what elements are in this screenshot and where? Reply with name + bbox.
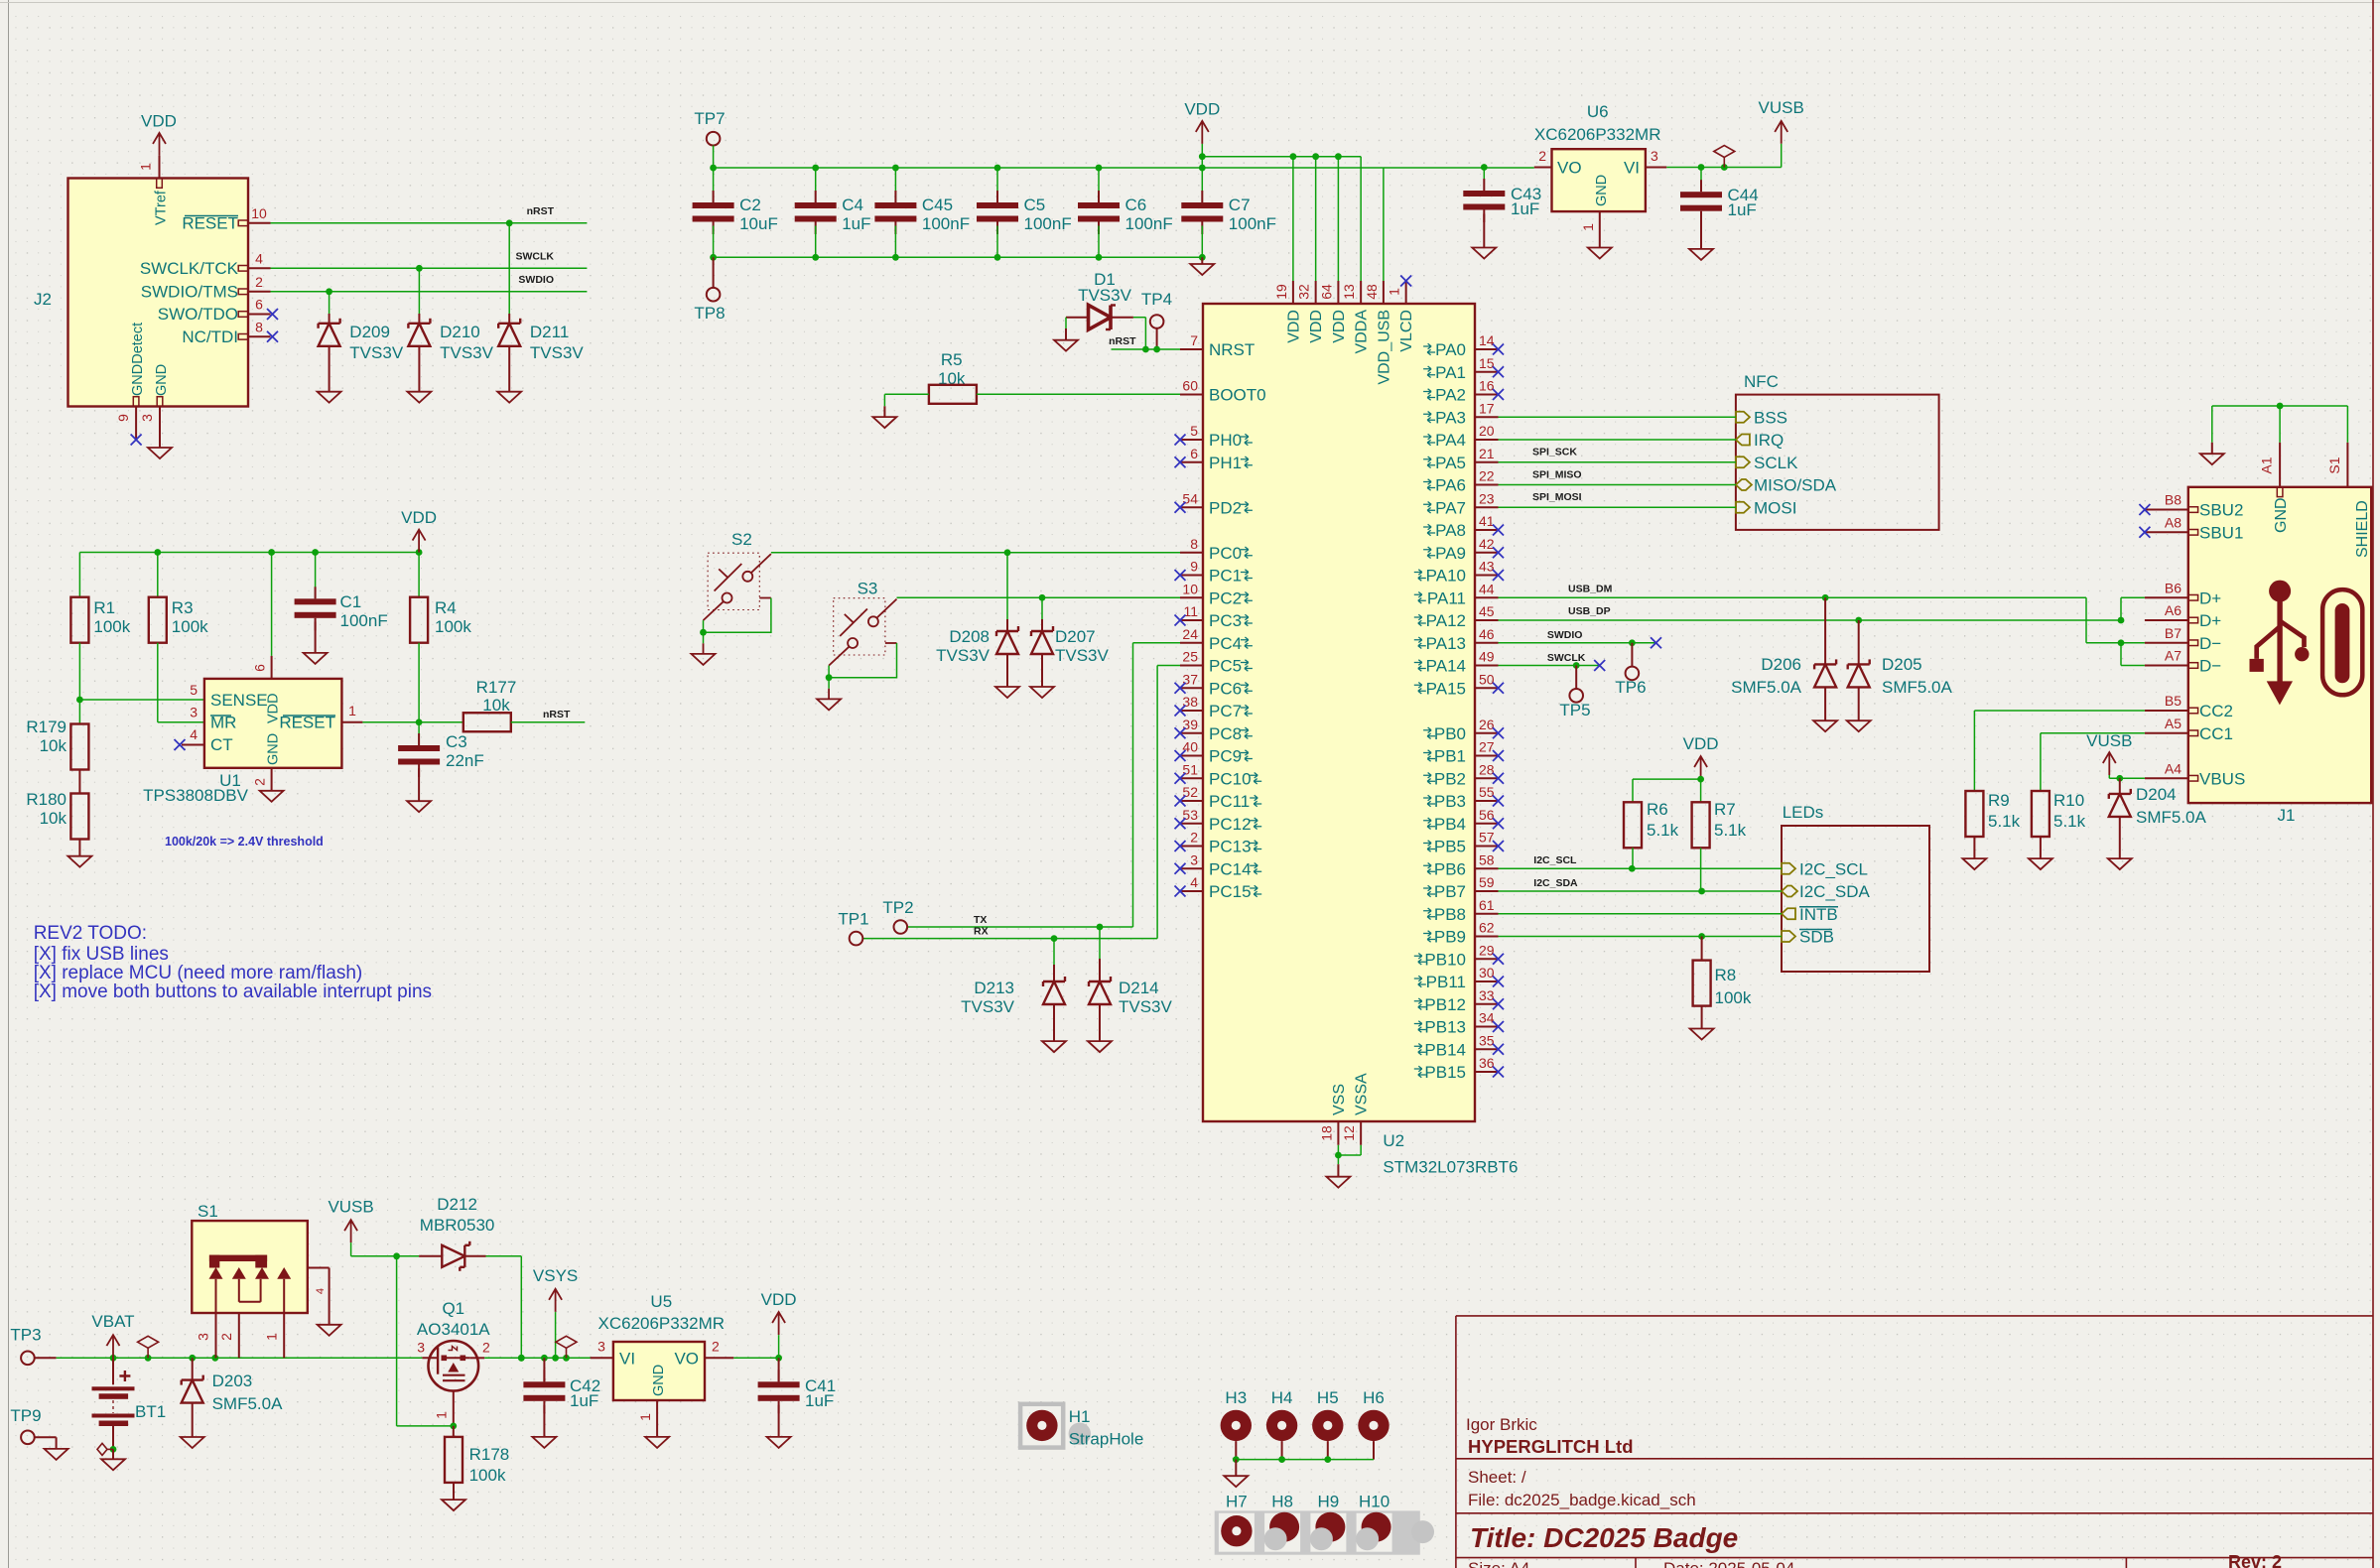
svg-text:D211: D211 bbox=[530, 323, 569, 341]
svg-text:21: 21 bbox=[1479, 446, 1495, 461]
svg-text:SPI_MOSI: SPI_MOSI bbox=[1532, 491, 1582, 503]
svg-text:PC13: PC13 bbox=[1209, 838, 1252, 856]
svg-text:R9: R9 bbox=[1988, 791, 2010, 810]
svg-text:CT: CT bbox=[210, 735, 233, 754]
svg-text:2: 2 bbox=[252, 778, 268, 786]
svg-text:PB5: PB5 bbox=[1434, 838, 1466, 856]
svg-text:25: 25 bbox=[1182, 649, 1198, 665]
svg-text:49: 49 bbox=[1479, 649, 1495, 665]
svg-text:14: 14 bbox=[1479, 332, 1495, 348]
svg-text:A6: A6 bbox=[2165, 602, 2182, 618]
svg-text:PA12: PA12 bbox=[1426, 611, 1466, 630]
svg-text:I2C_SCL: I2C_SCL bbox=[1799, 859, 1868, 878]
svg-text:R7: R7 bbox=[1714, 800, 1736, 819]
svg-text:GND: GND bbox=[154, 364, 170, 396]
svg-text:PB1: PB1 bbox=[1434, 747, 1466, 766]
svg-text:H9: H9 bbox=[1318, 1493, 1340, 1511]
svg-text:61: 61 bbox=[1479, 897, 1495, 913]
svg-text:RX: RX bbox=[974, 926, 989, 938]
svg-text:VI: VI bbox=[619, 1350, 635, 1369]
svg-text:10: 10 bbox=[251, 205, 267, 221]
svg-text:35: 35 bbox=[1479, 1032, 1495, 1048]
svg-text:PB13: PB13 bbox=[1424, 1018, 1466, 1037]
svg-text:15: 15 bbox=[1479, 355, 1495, 371]
svg-text:D203: D203 bbox=[212, 1372, 253, 1390]
svg-text:3: 3 bbox=[196, 1333, 211, 1341]
svg-text:SHIELD: SHIELD bbox=[2354, 500, 2371, 558]
svg-text:1: 1 bbox=[1580, 223, 1596, 231]
svg-text:PA14: PA14 bbox=[1426, 657, 1466, 676]
svg-text:SWCLK/TCK: SWCLK/TCK bbox=[140, 259, 239, 278]
svg-text:H3: H3 bbox=[1225, 1388, 1247, 1407]
svg-text:54: 54 bbox=[1182, 490, 1198, 506]
svg-text:D+: D+ bbox=[2199, 611, 2221, 630]
svg-text:C6: C6 bbox=[1125, 196, 1147, 214]
svg-text:100nF: 100nF bbox=[340, 611, 388, 630]
svg-text:H10: H10 bbox=[1359, 1493, 1389, 1511]
svg-text:C2: C2 bbox=[739, 196, 761, 214]
svg-text:PA4: PA4 bbox=[1435, 431, 1466, 450]
svg-text:VBAT: VBAT bbox=[91, 1312, 134, 1331]
svg-text:I2C_SDA: I2C_SDA bbox=[1799, 882, 1871, 901]
svg-text:PA5: PA5 bbox=[1435, 454, 1466, 472]
svg-text:GND: GND bbox=[651, 1365, 667, 1396]
svg-text:C1: C1 bbox=[340, 592, 362, 611]
svg-text:Title: DC2025 Badge: Title: DC2025 Badge bbox=[1470, 1522, 1738, 1553]
svg-text:3: 3 bbox=[597, 1339, 605, 1355]
svg-text:10k: 10k bbox=[482, 696, 510, 715]
svg-text:PH1: PH1 bbox=[1209, 454, 1242, 472]
svg-text:100nF: 100nF bbox=[1125, 214, 1173, 233]
svg-text:VDD: VDD bbox=[1331, 310, 1348, 343]
svg-text:LEDs: LEDs bbox=[1783, 803, 1824, 822]
svg-text:VDD: VDD bbox=[1683, 734, 1719, 753]
svg-text:BSS: BSS bbox=[1754, 408, 1787, 427]
svg-text:A8: A8 bbox=[2165, 514, 2182, 530]
svg-text:NC/TDI: NC/TDI bbox=[182, 327, 238, 346]
svg-text:nRST: nRST bbox=[543, 709, 571, 720]
svg-text:3: 3 bbox=[417, 1340, 425, 1356]
svg-text:VSYS: VSYS bbox=[533, 1266, 578, 1285]
svg-text:1uF: 1uF bbox=[1511, 199, 1539, 218]
svg-text:NRST: NRST bbox=[1209, 340, 1255, 359]
svg-text:REV2 TODO:: REV2 TODO: bbox=[34, 923, 147, 944]
svg-text:PC9: PC9 bbox=[1209, 747, 1242, 766]
svg-text:VDD: VDD bbox=[761, 1290, 797, 1309]
svg-text:Sheet: /: Sheet: / bbox=[1468, 1468, 1526, 1487]
svg-text:34: 34 bbox=[1479, 1010, 1495, 1026]
svg-text:7: 7 bbox=[1190, 332, 1198, 348]
svg-text:C3: C3 bbox=[446, 732, 467, 751]
svg-text:10k: 10k bbox=[40, 736, 67, 755]
svg-text:SMF5.0A: SMF5.0A bbox=[212, 1394, 284, 1413]
svg-text:18: 18 bbox=[1318, 1125, 1334, 1141]
svg-text:D205: D205 bbox=[1882, 655, 1922, 674]
svg-text:PB12: PB12 bbox=[1424, 995, 1466, 1014]
svg-text:B6: B6 bbox=[2165, 580, 2182, 595]
svg-text:4: 4 bbox=[1190, 874, 1198, 890]
svg-text:5: 5 bbox=[1190, 423, 1198, 439]
svg-text:D204: D204 bbox=[2136, 785, 2177, 804]
svg-text:SWCLK: SWCLK bbox=[1547, 652, 1586, 664]
svg-text:PA7: PA7 bbox=[1435, 498, 1466, 517]
svg-text:PA3: PA3 bbox=[1435, 408, 1466, 427]
svg-text:[X] move both buttons to avail: [X] move both buttons to available inter… bbox=[34, 981, 432, 1002]
svg-text:PH0: PH0 bbox=[1209, 431, 1242, 450]
svg-text:60: 60 bbox=[1182, 378, 1198, 394]
svg-text:[X] replace MCU (need more ram: [X] replace MCU (need more ram/flash) bbox=[34, 963, 363, 983]
svg-text:H1: H1 bbox=[1069, 1407, 1091, 1426]
svg-text:55: 55 bbox=[1479, 784, 1495, 800]
svg-text:S2: S2 bbox=[731, 530, 752, 549]
svg-text:TP4: TP4 bbox=[1141, 290, 1172, 309]
svg-text:100nF: 100nF bbox=[1229, 214, 1276, 233]
svg-text:RESET: RESET bbox=[182, 214, 238, 233]
svg-text:R1: R1 bbox=[93, 598, 115, 617]
svg-text:B5: B5 bbox=[2165, 693, 2182, 709]
svg-text:SWCLK: SWCLK bbox=[516, 251, 555, 263]
svg-text:A7: A7 bbox=[2165, 648, 2182, 664]
svg-text:9: 9 bbox=[1190, 559, 1198, 575]
svg-text:PA1: PA1 bbox=[1435, 363, 1466, 382]
svg-text:D208: D208 bbox=[949, 627, 990, 646]
svg-text:PB0: PB0 bbox=[1434, 724, 1466, 743]
svg-text:R4: R4 bbox=[435, 598, 457, 617]
svg-text:SDB: SDB bbox=[1799, 928, 1834, 947]
svg-text:S3: S3 bbox=[858, 580, 878, 598]
svg-text:1: 1 bbox=[138, 163, 154, 171]
svg-text:3: 3 bbox=[1190, 851, 1198, 867]
svg-text:4: 4 bbox=[190, 726, 198, 742]
svg-text:37: 37 bbox=[1182, 671, 1198, 687]
svg-text:VDD: VDD bbox=[401, 508, 437, 527]
svg-text:H6: H6 bbox=[1363, 1388, 1385, 1407]
svg-text:1uF: 1uF bbox=[842, 214, 870, 233]
svg-text:PB6: PB6 bbox=[1434, 859, 1466, 878]
svg-text:R5: R5 bbox=[941, 350, 963, 369]
svg-text:27: 27 bbox=[1479, 739, 1495, 755]
svg-text:1: 1 bbox=[434, 1411, 450, 1419]
svg-text:TX: TX bbox=[974, 914, 987, 926]
svg-text:D210: D210 bbox=[440, 323, 480, 341]
svg-text:57: 57 bbox=[1479, 830, 1495, 846]
svg-text:36: 36 bbox=[1479, 1055, 1495, 1071]
svg-text:4: 4 bbox=[255, 250, 263, 266]
svg-text:41: 41 bbox=[1479, 513, 1495, 529]
svg-text:PB10: PB10 bbox=[1424, 950, 1466, 969]
svg-text:1uF: 1uF bbox=[570, 1391, 598, 1410]
svg-text:PA8: PA8 bbox=[1435, 521, 1466, 540]
svg-text:C45: C45 bbox=[922, 196, 953, 214]
svg-text:10uF: 10uF bbox=[739, 214, 778, 233]
svg-text:PC1: PC1 bbox=[1209, 567, 1242, 586]
svg-text:A1: A1 bbox=[2259, 457, 2275, 473]
svg-text:XC6206P332MR: XC6206P332MR bbox=[598, 1314, 726, 1333]
svg-text:PA0: PA0 bbox=[1435, 340, 1466, 359]
svg-text:2: 2 bbox=[1538, 148, 1546, 164]
svg-text:CC1: CC1 bbox=[2199, 724, 2233, 743]
svg-text:J1: J1 bbox=[2278, 806, 2296, 825]
svg-text:22nF: 22nF bbox=[446, 751, 484, 770]
svg-text:TVS3V: TVS3V bbox=[349, 343, 404, 362]
svg-text:[X] fix USB lines: [X] fix USB lines bbox=[34, 944, 169, 965]
svg-text:SWDIO/TMS: SWDIO/TMS bbox=[141, 283, 238, 302]
svg-text:100k: 100k bbox=[93, 617, 130, 636]
svg-text:MOSI: MOSI bbox=[1754, 498, 1796, 517]
svg-text:1uF: 1uF bbox=[1728, 200, 1757, 219]
svg-text:PB8: PB8 bbox=[1434, 905, 1466, 924]
svg-text:S1: S1 bbox=[198, 1202, 218, 1221]
svg-text:PA9: PA9 bbox=[1435, 544, 1466, 563]
svg-text:TVS3V: TVS3V bbox=[961, 997, 1015, 1016]
svg-text:23: 23 bbox=[1479, 490, 1495, 506]
svg-text:TVS3V: TVS3V bbox=[530, 343, 585, 362]
svg-text:C4: C4 bbox=[842, 196, 863, 214]
svg-text:17: 17 bbox=[1479, 400, 1495, 416]
svg-text:INTB: INTB bbox=[1799, 905, 1838, 924]
svg-text:20: 20 bbox=[1479, 423, 1495, 439]
svg-text:SWDIO: SWDIO bbox=[518, 274, 554, 286]
svg-text:VTref: VTref bbox=[154, 190, 170, 225]
svg-text:VDDA: VDDA bbox=[1354, 310, 1371, 354]
svg-text:58: 58 bbox=[1479, 851, 1495, 867]
svg-text:13: 13 bbox=[1341, 284, 1357, 300]
svg-text:PB7: PB7 bbox=[1434, 882, 1466, 901]
svg-text:J2: J2 bbox=[34, 290, 52, 309]
svg-text:TVS3V: TVS3V bbox=[936, 646, 991, 665]
svg-text:PC15: PC15 bbox=[1209, 882, 1252, 901]
svg-text:TVS3V: TVS3V bbox=[1078, 286, 1132, 305]
svg-text:VI: VI bbox=[1624, 159, 1640, 178]
svg-text:SCLK: SCLK bbox=[1754, 454, 1798, 472]
svg-text:VUSB: VUSB bbox=[1759, 98, 1804, 117]
svg-text:PD2: PD2 bbox=[1209, 498, 1242, 517]
svg-text:16: 16 bbox=[1479, 378, 1495, 394]
svg-text:R179: R179 bbox=[26, 718, 66, 736]
svg-text:SWO/TDO: SWO/TDO bbox=[158, 305, 238, 324]
svg-text:PC10: PC10 bbox=[1209, 769, 1252, 788]
svg-text:nRST: nRST bbox=[1109, 335, 1136, 347]
svg-text:100k: 100k bbox=[435, 617, 471, 636]
svg-text:1uF: 1uF bbox=[805, 1391, 834, 1410]
svg-text:PC8: PC8 bbox=[1209, 724, 1242, 743]
svg-text:D213: D213 bbox=[974, 979, 1014, 997]
svg-text:CC2: CC2 bbox=[2199, 702, 2233, 720]
svg-text:8: 8 bbox=[1190, 536, 1198, 552]
svg-text:6: 6 bbox=[255, 297, 263, 313]
svg-text:50: 50 bbox=[1479, 671, 1495, 687]
svg-text:1: 1 bbox=[348, 703, 356, 719]
svg-text:PA2: PA2 bbox=[1435, 386, 1466, 405]
svg-text:56: 56 bbox=[1479, 807, 1495, 823]
svg-text:PC14: PC14 bbox=[1209, 859, 1252, 878]
svg-text:VDD: VDD bbox=[141, 112, 177, 131]
svg-text:28: 28 bbox=[1479, 761, 1495, 777]
svg-text:2: 2 bbox=[255, 274, 263, 290]
svg-text:H7: H7 bbox=[1226, 1493, 1248, 1511]
svg-text:PB9: PB9 bbox=[1434, 928, 1466, 947]
svg-text:PB14: PB14 bbox=[1424, 1040, 1466, 1059]
svg-text:22: 22 bbox=[1479, 468, 1495, 484]
svg-text:100nF: 100nF bbox=[922, 214, 970, 233]
svg-text:5.1k: 5.1k bbox=[1988, 812, 2021, 831]
svg-text:TP7: TP7 bbox=[694, 109, 725, 128]
svg-text:PC7: PC7 bbox=[1209, 702, 1242, 720]
svg-text:MISO/SDA: MISO/SDA bbox=[1754, 476, 1837, 495]
svg-text:1: 1 bbox=[637, 1413, 653, 1421]
svg-text:D207: D207 bbox=[1055, 627, 1096, 646]
svg-text:2: 2 bbox=[218, 1333, 234, 1341]
svg-text:PC0: PC0 bbox=[1209, 544, 1242, 563]
svg-text:44: 44 bbox=[1479, 581, 1495, 596]
svg-text:VSS: VSS bbox=[1331, 1084, 1348, 1115]
svg-text:R6: R6 bbox=[1647, 800, 1668, 819]
svg-text:32: 32 bbox=[1296, 284, 1312, 300]
svg-text:PB11: PB11 bbox=[1426, 973, 1466, 991]
svg-text:100k: 100k bbox=[1715, 988, 1752, 1007]
svg-text:nRST: nRST bbox=[527, 205, 555, 217]
svg-text:TP1: TP1 bbox=[838, 910, 868, 929]
svg-text:StrapHole: StrapHole bbox=[1069, 1430, 1144, 1449]
svg-text:52: 52 bbox=[1182, 784, 1198, 800]
svg-text:NFC: NFC bbox=[1744, 372, 1779, 391]
svg-text:H5: H5 bbox=[1317, 1388, 1339, 1407]
svg-text:PB3: PB3 bbox=[1434, 792, 1466, 811]
svg-text:VDD: VDD bbox=[1308, 310, 1325, 343]
svg-text:62: 62 bbox=[1479, 920, 1495, 936]
svg-text:Date: 2025-05-04: Date: 2025-05-04 bbox=[1663, 1559, 1794, 1568]
svg-text:File: dc2025_badge.kicad_sch: File: dc2025_badge.kicad_sch bbox=[1468, 1491, 1696, 1509]
svg-text:U6: U6 bbox=[1587, 102, 1609, 121]
svg-text:TP2: TP2 bbox=[882, 898, 913, 917]
svg-text:VO: VO bbox=[674, 1350, 699, 1369]
svg-text:VDD: VDD bbox=[1285, 310, 1302, 343]
svg-text:1: 1 bbox=[1387, 288, 1402, 296]
svg-text:USB_DP: USB_DP bbox=[1568, 605, 1611, 617]
svg-text:2: 2 bbox=[712, 1339, 720, 1355]
svg-text:SENSE: SENSE bbox=[210, 691, 268, 710]
svg-text:40: 40 bbox=[1182, 739, 1198, 755]
svg-text:9: 9 bbox=[115, 414, 131, 422]
svg-text:PB4: PB4 bbox=[1434, 815, 1466, 834]
svg-text:5.1k: 5.1k bbox=[2053, 812, 2086, 831]
svg-text:1: 1 bbox=[264, 1333, 280, 1341]
svg-text:MBR0530: MBR0530 bbox=[420, 1216, 495, 1235]
svg-text:59: 59 bbox=[1479, 874, 1495, 890]
svg-text:53: 53 bbox=[1182, 807, 1198, 823]
svg-text:VSSA: VSSA bbox=[1354, 1073, 1371, 1115]
svg-text:I2C_SCL: I2C_SCL bbox=[1533, 854, 1577, 866]
svg-text:Rev: 2: Rev: 2 bbox=[2228, 1552, 2282, 1568]
svg-text:2: 2 bbox=[1190, 830, 1198, 846]
svg-text:SMF5.0A: SMF5.0A bbox=[1731, 678, 1802, 697]
svg-text:C7: C7 bbox=[1229, 196, 1251, 214]
svg-text:D−: D− bbox=[2199, 657, 2221, 676]
svg-text:3: 3 bbox=[139, 414, 155, 422]
svg-text:D206: D206 bbox=[1761, 655, 1801, 674]
svg-text:D−: D− bbox=[2199, 634, 2221, 653]
svg-text:A4: A4 bbox=[2165, 760, 2182, 776]
svg-text:D209: D209 bbox=[349, 323, 390, 341]
svg-text:PC6: PC6 bbox=[1209, 679, 1242, 698]
svg-text:TVS3V: TVS3V bbox=[440, 343, 494, 362]
svg-text:33: 33 bbox=[1479, 987, 1495, 1003]
svg-text:38: 38 bbox=[1182, 694, 1198, 710]
svg-text:BOOT0: BOOT0 bbox=[1209, 386, 1266, 405]
svg-text:SMF5.0A: SMF5.0A bbox=[2136, 808, 2207, 827]
svg-text:5.1k: 5.1k bbox=[1714, 821, 1747, 840]
svg-text:XC6206P332MR: XC6206P332MR bbox=[1534, 125, 1661, 144]
svg-text:10: 10 bbox=[1182, 581, 1198, 596]
svg-text:VBUS: VBUS bbox=[2199, 769, 2245, 788]
svg-text:26: 26 bbox=[1479, 717, 1495, 732]
svg-text:PC5: PC5 bbox=[1209, 657, 1242, 676]
svg-text:GNDDetect: GNDDetect bbox=[130, 323, 146, 396]
svg-text:TP9: TP9 bbox=[10, 1406, 41, 1425]
svg-text:64: 64 bbox=[1318, 284, 1334, 300]
svg-text:R178: R178 bbox=[469, 1445, 510, 1464]
svg-text:43: 43 bbox=[1479, 559, 1495, 575]
svg-text:U5: U5 bbox=[650, 1292, 672, 1311]
svg-text:100k/20k => 2.4V threshold: 100k/20k => 2.4V threshold bbox=[165, 835, 324, 849]
svg-text:19: 19 bbox=[1273, 284, 1289, 300]
svg-text:SBU1: SBU1 bbox=[2199, 523, 2243, 542]
svg-text:PA6: PA6 bbox=[1435, 476, 1466, 495]
svg-text:100nF: 100nF bbox=[1024, 214, 1072, 233]
svg-text:6: 6 bbox=[252, 664, 268, 672]
svg-text:SPI_SCK: SPI_SCK bbox=[1532, 447, 1577, 458]
svg-text:6: 6 bbox=[1190, 446, 1198, 461]
svg-text:B7: B7 bbox=[2165, 625, 2182, 641]
svg-text:D+: D+ bbox=[2199, 588, 2221, 607]
svg-text:IRQ: IRQ bbox=[1754, 431, 1784, 450]
svg-text:GND: GND bbox=[2273, 497, 2290, 533]
svg-text:USB_DM: USB_DM bbox=[1568, 584, 1613, 595]
svg-text:3: 3 bbox=[190, 705, 198, 720]
svg-text:PC12: PC12 bbox=[1209, 815, 1252, 834]
svg-text:VLCD: VLCD bbox=[1398, 310, 1415, 352]
svg-text:VUSB: VUSB bbox=[328, 1198, 373, 1217]
svg-text:Size: A4: Size: A4 bbox=[1468, 1559, 1529, 1568]
svg-text:R177: R177 bbox=[476, 678, 517, 697]
svg-text:R180: R180 bbox=[26, 790, 66, 809]
svg-text:29: 29 bbox=[1479, 942, 1495, 958]
svg-text:42: 42 bbox=[1479, 536, 1495, 552]
svg-text:SPI_MISO: SPI_MISO bbox=[1532, 468, 1582, 480]
svg-text:PB2: PB2 bbox=[1434, 769, 1466, 788]
svg-text:51: 51 bbox=[1182, 761, 1198, 777]
svg-text:S1: S1 bbox=[2326, 457, 2342, 473]
svg-text:100k: 100k bbox=[469, 1466, 506, 1485]
svg-text:SMF5.0A: SMF5.0A bbox=[1882, 678, 1953, 697]
svg-text:R3: R3 bbox=[172, 598, 194, 617]
svg-text:46: 46 bbox=[1479, 626, 1495, 642]
svg-text:VDD: VDD bbox=[1184, 100, 1220, 119]
svg-text:D214: D214 bbox=[1119, 979, 1159, 997]
svg-text:SBU2: SBU2 bbox=[2199, 501, 2243, 520]
svg-text:TP8: TP8 bbox=[694, 304, 725, 323]
svg-text:PA13: PA13 bbox=[1426, 634, 1466, 653]
svg-text:PA15: PA15 bbox=[1426, 679, 1466, 698]
svg-text:A5: A5 bbox=[2165, 716, 2182, 731]
svg-text:D212: D212 bbox=[437, 1195, 477, 1214]
svg-text:PC2: PC2 bbox=[1209, 588, 1242, 607]
svg-text:R10: R10 bbox=[2053, 791, 2084, 810]
svg-text:8: 8 bbox=[255, 319, 263, 334]
svg-text:VUSB: VUSB bbox=[2086, 731, 2132, 750]
svg-text:TPS3808DBV: TPS3808DBV bbox=[143, 786, 248, 805]
svg-text:100k: 100k bbox=[172, 617, 208, 636]
